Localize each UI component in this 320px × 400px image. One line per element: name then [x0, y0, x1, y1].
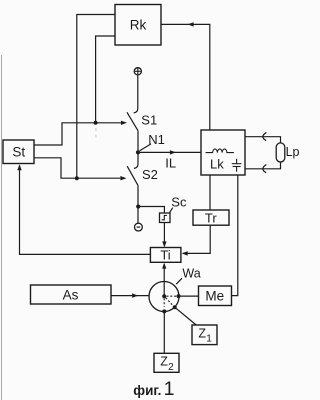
lamp Lp	[276, 143, 285, 162]
wire N1 to S2 fixed contact	[134, 152, 138, 168]
svg-text:1: 1	[206, 334, 212, 345]
block Lk (resonant circuit)	[201, 130, 245, 175]
svg-text:IL: IL	[165, 155, 176, 170]
chevron arrowhead on top lamp wire	[263, 132, 267, 140]
arrowhead into Rk (pointing left)	[188, 22, 194, 26]
wire Wa center to Ti bottom	[163, 264, 165, 296]
leader line Wa	[176, 278, 182, 284]
junction S2-control / Rk line	[75, 176, 79, 180]
svg-text:N1: N1	[148, 132, 165, 147]
leader line Sc	[169, 208, 172, 213]
wire Wa circle to Me left	[179, 295, 199, 297]
block Z1	[192, 325, 217, 345]
block Ti	[150, 248, 181, 263]
minus supply terminal	[135, 223, 143, 231]
sensor step symbol	[162, 215, 167, 219]
Wa dashed selector position horizontal	[167, 295, 177, 297]
wire Lk to lamp Lp bottom	[245, 162, 281, 169]
wire St output to S2 control	[34, 158, 120, 178]
wire S1 to node N1	[137, 131, 139, 153]
svg-text:1: 1	[164, 378, 175, 400]
wire junction to current sensor Sc	[138, 207, 164, 214]
svg-text:St: St	[12, 144, 25, 159]
svg-text:Z: Z	[160, 355, 168, 369]
arrowhead into Ti bottom (pointing up)	[162, 263, 166, 269]
block As	[31, 285, 112, 304]
Wa center contact dot	[162, 294, 166, 298]
plus supply terminal	[134, 68, 141, 75]
arrowhead into switch S2	[120, 176, 126, 180]
block Tr	[193, 210, 229, 225]
svg-text:S1: S1	[141, 113, 157, 128]
junction S1-control / Rk line	[94, 121, 98, 125]
svg-text:Ti: Ti	[160, 248, 170, 263]
faint print artifact below junction	[95, 128, 97, 138]
wire Lk bottom to Me right	[232, 175, 238, 296]
svg-text:Wa: Wa	[182, 267, 200, 281]
block Rk	[115, 5, 161, 46]
wire Wa to Z1	[175, 307, 197, 325]
block Z2	[154, 353, 179, 373]
wire As output to Wa circle	[111, 295, 149, 297]
wire N1 to Lk input (current IL)	[138, 151, 201, 153]
capacitor symbol in Lk	[232, 159, 242, 172]
arrowhead current direction IL	[170, 150, 176, 154]
svg-text:Lk: Lk	[210, 156, 224, 171]
svg-text:фиг.: фиг.	[133, 383, 161, 398]
selector circle Wa	[149, 282, 179, 312]
svg-text:2: 2	[168, 362, 174, 373]
arrowhead into switch S1	[121, 121, 127, 125]
Wa right contact dot	[177, 294, 181, 298]
wire Tr to Ti input	[183, 225, 210, 253]
wire Lk to lamp Lp top	[245, 137, 281, 143]
Wa dashed selector position diagonal	[166, 298, 174, 306]
svg-text:Tr: Tr	[205, 210, 217, 225]
svg-text:Z: Z	[198, 326, 206, 340]
Wa lower-right contact dot	[173, 305, 177, 309]
node N1 junction dot	[136, 150, 140, 154]
caption fig. 1	[133, 378, 174, 400]
wire St output to S1 control	[34, 123, 121, 145]
switch S2 blade	[127, 166, 138, 185]
wire S2 to minus terminal	[137, 185, 139, 223]
wire Rk right input from Lk top	[161, 24, 210, 130]
svg-text:S2: S2	[142, 167, 158, 182]
node N1 leader line	[140, 144, 151, 151]
wire Rk left input 2 (from S1 control net)	[96, 36, 115, 123]
wire Sc to Ti input	[163, 223, 165, 247]
block St	[3, 140, 34, 164]
svg-text:Rk: Rk	[130, 18, 147, 33]
arrowhead into Ti right (pointing left)	[182, 251, 188, 255]
wire Wa to Z2	[163, 311, 165, 353]
wire Lk bottom to Tr	[209, 175, 211, 210]
svg-text:Me: Me	[205, 289, 224, 304]
svg-text:Sc: Sc	[171, 194, 187, 209]
current sensor Sc box	[160, 213, 171, 223]
scan border artifact left edge	[1, 55, 3, 400]
arrowhead into St bottom (pointing up)	[17, 164, 21, 170]
block Me	[199, 286, 232, 306]
svg-text:Lp: Lp	[286, 145, 300, 159]
wire Rk left input 1 (from S2 control net)	[77, 15, 115, 179]
inductor symbol in Lk	[206, 149, 234, 153]
Wa dashed selector position vertical	[163, 298, 165, 306]
junction S2 / shunt branch	[136, 204, 140, 208]
arrowhead on As wire (pointing right)	[132, 293, 138, 297]
wire plus terminal to S1 fixed contact	[134, 75, 138, 113]
chevron arrowhead on bottom lamp wire	[263, 165, 267, 173]
arrowhead into Ti top (pointing down)	[162, 241, 166, 247]
svg-text:As: As	[63, 287, 79, 302]
wire feedback Ti output to St input	[20, 166, 151, 255]
Wa bottom contact dot	[162, 309, 166, 313]
switch S1 blade	[127, 112, 138, 130]
